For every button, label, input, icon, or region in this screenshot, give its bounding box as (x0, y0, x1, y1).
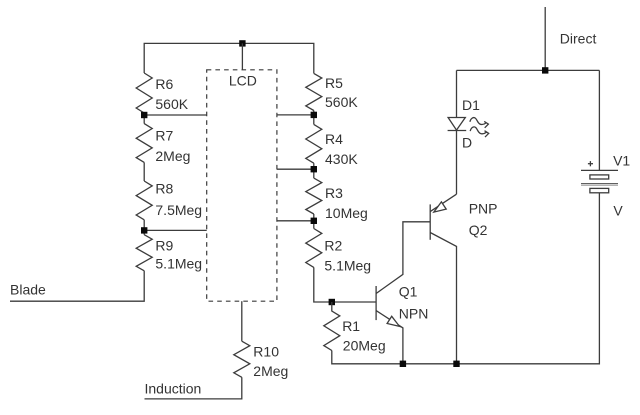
battery V1 cell box 2 (590, 188, 609, 192)
transistor Q2 base bar (429, 204, 431, 239)
wire LCD right to node R5/R4 (277, 114, 314, 116)
wire LED cathode to Q2 emitter (456, 131, 458, 195)
wire top-right bus (LED to battery) (457, 69, 600, 71)
resistor R2 (306, 229, 322, 268)
arrow Q2 emitter (PNP, pointing in) (434, 202, 446, 212)
wire R9 bottom to Blade (10, 271, 144, 301)
resistor R3 (306, 178, 322, 214)
svg-text:R7: R7 (155, 127, 173, 143)
svg-text:2Meg: 2Meg (155, 148, 190, 164)
node R1 tap junction (329, 299, 335, 305)
svg-text:7.5Meg: 7.5Meg (155, 202, 202, 218)
node Q2 collector on rail (453, 361, 459, 367)
wire Q1 emitter (376, 311, 403, 364)
node top-bus junction (239, 40, 245, 46)
svg-text:R3: R3 (325, 185, 343, 201)
svg-text:R5: R5 (325, 75, 343, 91)
wire R8-R9 lead (143, 220, 145, 235)
wire stub from top bus to LCD top (241, 43, 243, 69)
node direct-bus junction (542, 67, 548, 73)
resistor R1 (324, 302, 340, 351)
battery plus sign (588, 163, 593, 165)
resistor R10 (234, 341, 250, 377)
resistor R9 (136, 235, 152, 271)
svg-text:5.1Meg: 5.1Meg (324, 258, 371, 274)
svg-text:Direct: Direct (560, 31, 597, 47)
wire R4-R3 lead (313, 163, 315, 178)
wire battery top lead (598, 70, 600, 170)
svg-text:Blade: Blade (10, 282, 46, 298)
LED light arrow 2 (470, 127, 486, 134)
svg-text:R1: R1 (342, 318, 360, 334)
svg-text:R6: R6 (155, 76, 173, 92)
transistor Q1 base bar (375, 286, 377, 320)
svg-text:2Meg: 2Meg (253, 363, 288, 379)
resistor R7 (136, 124, 152, 163)
wire node R6/R7 to LCD left (144, 114, 207, 116)
svg-text:R8: R8 (155, 180, 173, 196)
resistor R5 (306, 73, 322, 110)
svg-text:R10: R10 (253, 343, 279, 359)
svg-text:V: V (613, 203, 623, 219)
battery V1 top plate line (581, 169, 618, 171)
diode D1 triangle (448, 118, 465, 131)
svg-text:Q1: Q1 (399, 284, 418, 300)
battery V1 cell box 1 (590, 175, 609, 179)
node Q1 emitter on rail (400, 361, 406, 367)
svg-text:20Meg: 20Meg (343, 337, 386, 353)
svg-text:560K: 560K (155, 96, 188, 112)
wire R7-R8 lead (143, 162, 145, 181)
arrow Q1 emitter (NPN, pointing out) (387, 316, 399, 326)
svg-text:560K: 560K (325, 94, 358, 110)
svg-text:R2: R2 (324, 237, 342, 253)
node R5/R4 junction (311, 112, 317, 118)
node R3/R2 junction (311, 218, 317, 224)
wire R5-R4 lead (313, 111, 315, 125)
wire LCD right to node R3/R2 (277, 220, 314, 222)
wire top bus (left chain to right chain) (144, 43, 314, 73)
wire direct feeder (top) (544, 7, 546, 70)
svg-text:R4: R4 (325, 131, 343, 147)
resistor R4 (306, 124, 322, 163)
wire R10 bottom to Induction (145, 377, 242, 399)
diode D1 cathode bar (448, 130, 467, 132)
resistor R8 (136, 181, 152, 220)
svg-text:Q2: Q2 (469, 222, 488, 238)
node R4/R3 junction (311, 166, 317, 172)
wire R2 bottom to Q1 base (314, 267, 376, 302)
svg-text:10Meg: 10Meg (325, 205, 368, 221)
LCD module (dashed box) (207, 70, 277, 301)
wire LCD right to node R4/R3 (277, 168, 314, 170)
wire R6-R7 lead (143, 113, 145, 124)
svg-text:V1: V1 (613, 153, 630, 169)
node R6/R7 junction (141, 112, 147, 118)
LED light arrow 1 (470, 118, 486, 125)
svg-text:PNP: PNP (469, 201, 498, 217)
svg-text:D: D (462, 134, 472, 150)
battery V1 mid separator lines (581, 183, 618, 185)
wire LED anode lead (456, 70, 458, 117)
wire R1 bottom + ground rail + battery bottom riser (332, 193, 600, 364)
svg-text:D1: D1 (462, 97, 480, 113)
resistor R6 (136, 73, 152, 113)
svg-text:LCD: LCD (229, 72, 257, 88)
svg-text:NPN: NPN (399, 306, 429, 322)
wire Q2 emitter from LED (430, 194, 456, 211)
svg-text:5.1Meg: 5.1Meg (155, 255, 202, 271)
wire LCD bottom to R10 (241, 301, 243, 341)
wire R3-R2 lead (313, 214, 315, 229)
wire node R8/R9 to LCD left (144, 229, 207, 231)
wire Q2 collector down to rail (430, 233, 456, 364)
svg-text:430K: 430K (325, 151, 358, 167)
node R8/R9 junction (141, 227, 147, 233)
svg-text:R9: R9 (155, 237, 173, 253)
svg-text:Induction: Induction (145, 380, 202, 396)
wire Q1 collector up to Q2 base (376, 222, 430, 294)
